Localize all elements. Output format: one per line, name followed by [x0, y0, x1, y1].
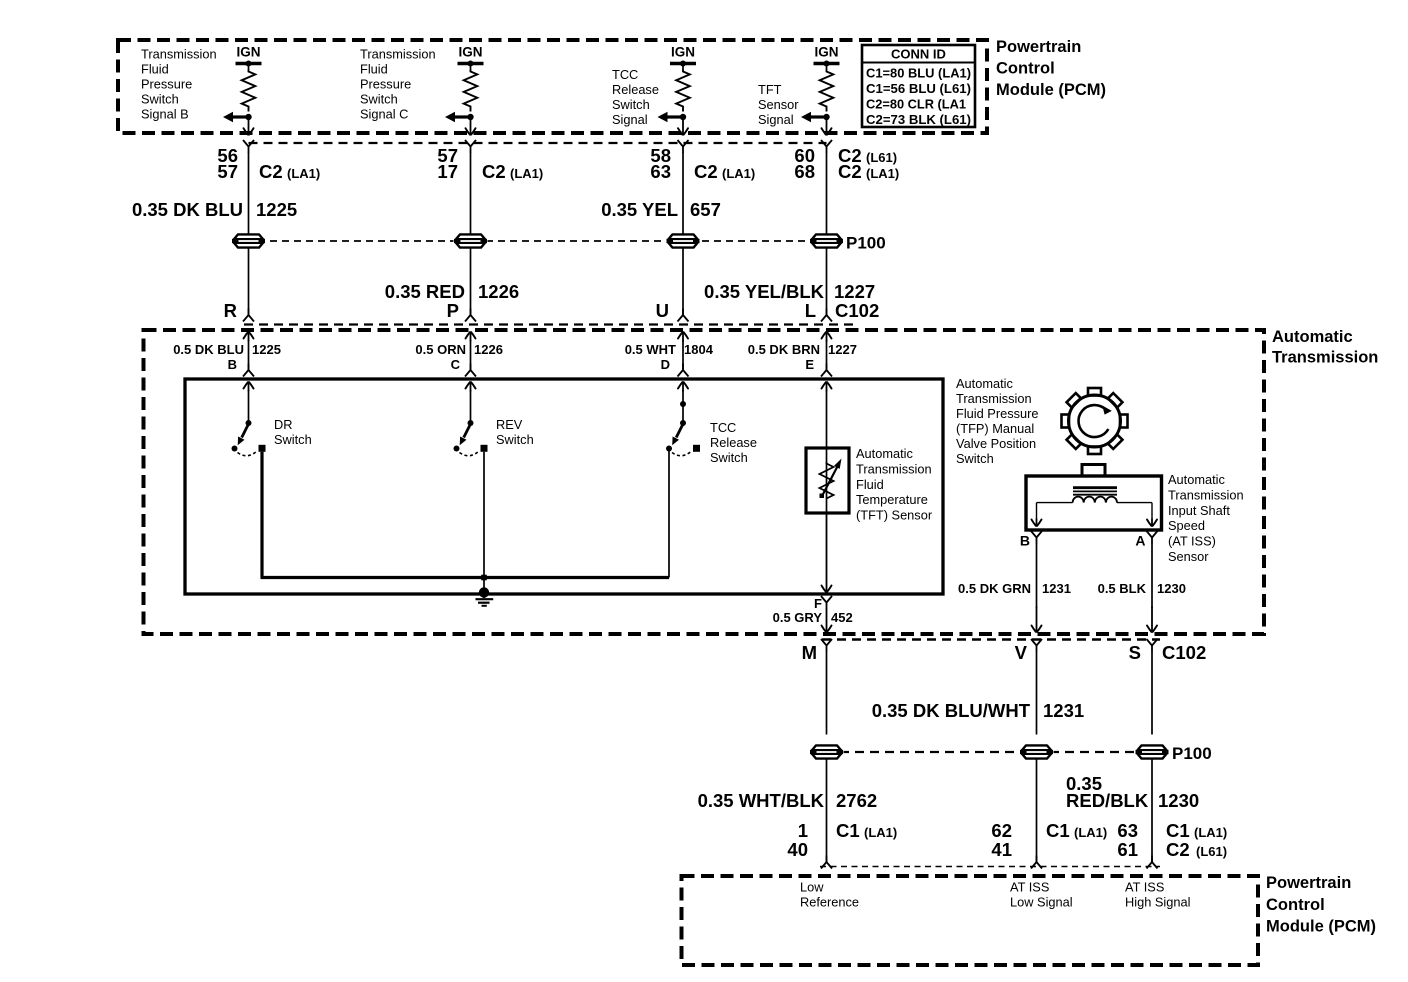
- grommet P100 col1: [232, 234, 266, 249]
- wire label 0.35 DK BLU 1225: [132, 199, 297, 220]
- svg-text:1231: 1231: [1043, 700, 1084, 721]
- wire resistor junction to PCM pin 2 with down arrow: [466, 117, 476, 135]
- svg-text:17: 17: [437, 161, 458, 182]
- wire resistor junction to PCM pin 4 with down arrow: [822, 117, 832, 135]
- PCM bottom connector dashed line: [820, 866, 1160, 868]
- label: AT ISS High Signal: [1125, 880, 1190, 910]
- IGN supply bar circuit 3: [670, 61, 696, 67]
- label: DR Switch: [274, 417, 312, 447]
- svg-text:Fluid: Fluid: [360, 62, 388, 77]
- wire C102 to switch box col1: [248, 340, 250, 370]
- svg-text:657: 657: [690, 199, 721, 220]
- svg-text:Automatic: Automatic: [1168, 472, 1226, 487]
- svg-text:C2: C2: [259, 161, 283, 182]
- svg-text:Input Shaft: Input Shaft: [1168, 503, 1230, 518]
- svg-text:TCC: TCC: [710, 420, 736, 435]
- svg-text:Release: Release: [612, 82, 659, 97]
- connector C102 female half bottom x1036: [1031, 639, 1037, 646]
- wire P100 to C102 col1: [248, 248, 250, 315]
- wire C102 to switch box col3: [682, 340, 684, 370]
- signal junction dot and left arrow circuit 3: [658, 112, 687, 122]
- wire P100 to C102 col4: [826, 248, 828, 315]
- svg-text:1804: 1804: [684, 342, 714, 357]
- connector C102 male arrow col3: [678, 332, 682, 338]
- svg-text:Powertrain: Powertrain: [996, 38, 1081, 56]
- label: AT ISS Low Signal: [1010, 880, 1073, 910]
- label: Automatic Transmission Input Shaft Speed (AT ISS) Sensor: [1168, 472, 1244, 564]
- svg-text:CONN ID: CONN ID: [891, 47, 946, 62]
- svg-text:(L61): (L61): [866, 150, 897, 165]
- wire F to C102 with down arrow: [822, 626, 826, 632]
- wire V P100 to PCM: [1036, 759, 1038, 862]
- svg-text:0.35 YEL: 0.35 YEL: [601, 199, 678, 220]
- svg-text:(LA1): (LA1): [722, 166, 755, 181]
- svg-text:R: R: [224, 300, 237, 321]
- Automatic Transmission box (dashed): [144, 330, 1265, 634]
- wire IGN bar to resistor 4: [826, 64, 828, 70]
- svg-text:C1=56 BLU (L61): C1=56 BLU (L61): [866, 81, 971, 96]
- svg-text:1225: 1225: [252, 342, 281, 357]
- wire resistor junction to PCM pin 3 with down arrow: [678, 117, 688, 135]
- connector C2 female half pin 1: [243, 140, 254, 153]
- connector C102 female half col4: [821, 315, 827, 322]
- wire label 0.35 YEL/BLK 1227: [704, 281, 875, 302]
- wire TCC pivot down: [668, 449, 670, 578]
- svg-text:P: P: [447, 300, 459, 321]
- svg-text:68: 68: [794, 161, 815, 182]
- svg-text:AT ISS: AT ISS: [1125, 880, 1164, 895]
- svg-text:0.35 DK BLU: 0.35 DK BLU: [132, 199, 243, 220]
- svg-text:B: B: [1020, 533, 1030, 549]
- connector C2 dashed line: [249, 142, 827, 144]
- svg-text:Release: Release: [710, 435, 757, 450]
- svg-text:(L61): (L61): [1196, 844, 1227, 859]
- svg-text:0.35 RED: 0.35 RED: [385, 281, 465, 302]
- TFP switch assembly box (solid): [185, 379, 943, 594]
- svg-text:REV: REV: [496, 417, 523, 432]
- svg-text:0.5 WHT: 0.5 WHT: [625, 342, 676, 357]
- svg-text:Switch: Switch: [956, 451, 994, 466]
- svg-text:Fluid: Fluid: [141, 62, 169, 77]
- svg-text:F: F: [814, 596, 822, 611]
- svg-text:IGN: IGN: [671, 45, 695, 60]
- svg-text:Automatic: Automatic: [1272, 328, 1353, 346]
- svg-text:Switch: Switch: [496, 432, 534, 447]
- svg-text:Valve Position: Valve Position: [956, 436, 1036, 451]
- PCM bottom entry female half x826: [821, 862, 827, 869]
- svg-text:1226: 1226: [478, 281, 519, 302]
- pin labels 57 17 C2 (LA1) col2: [437, 145, 543, 182]
- TCC release switch: [666, 382, 700, 456]
- pin labels 60 68 C2 (L61) C2 (LA1) col4: [794, 145, 899, 182]
- wire IGN bar to resistor 3: [682, 64, 684, 70]
- DR switch: [232, 382, 266, 456]
- svg-text:Fluid: Fluid: [856, 477, 884, 492]
- wire label 0.5 DK BRN 1227 and terminal E: [748, 342, 857, 372]
- svg-text:C1: C1: [1166, 820, 1190, 841]
- svg-text:Transmission: Transmission: [360, 47, 436, 62]
- switch box entry female half col4: [821, 370, 827, 377]
- svg-text:C1: C1: [836, 820, 860, 841]
- svg-text:1225: 1225: [256, 199, 297, 220]
- pull-up resistor circuit 3: [676, 70, 690, 112]
- svg-text:Fluid Pressure: Fluid Pressure: [956, 406, 1039, 421]
- svg-text:(LA1): (LA1): [1074, 825, 1107, 840]
- svg-text:Pressure: Pressure: [141, 77, 192, 92]
- pull-up resistor circuit 1: [242, 70, 256, 112]
- connector C2 female half pin 4: [821, 140, 832, 153]
- TFT sensor (thermistor in box): [806, 448, 849, 513]
- svg-text:C2: C2: [694, 161, 718, 182]
- wire label 0.5 GRY 452: [773, 610, 853, 625]
- svg-text:Control: Control: [1266, 896, 1325, 914]
- svg-text:63: 63: [650, 161, 671, 182]
- grommet P100 bottom x1036: [1020, 745, 1054, 760]
- svg-text:D: D: [661, 357, 670, 372]
- grommet P100 bottom x826: [810, 745, 844, 760]
- svg-text:41: 41: [991, 839, 1012, 860]
- label: Automatic Transmission (right): [1272, 328, 1378, 367]
- svg-text:TCC: TCC: [612, 67, 638, 82]
- svg-text:(LA1): (LA1): [866, 166, 899, 181]
- svg-text:Switch: Switch: [612, 97, 650, 112]
- svg-text:Sensor: Sensor: [1168, 549, 1209, 564]
- wire resistor junction to PCM pin 1 with down arrow: [244, 117, 254, 135]
- Powertrain Control Module (PCM) top box (dashed): [118, 40, 987, 133]
- svg-text:Low Signal: Low Signal: [1010, 895, 1073, 910]
- switch box entry female half col2: [465, 370, 471, 377]
- wire B down arrow at C102: [1032, 626, 1036, 632]
- svg-text:Transmission: Transmission: [856, 461, 932, 476]
- svg-text:C2: C2: [1166, 839, 1190, 860]
- AT ISS pin B half-connector and label: [1020, 531, 1042, 549]
- svg-text:C: C: [451, 357, 461, 372]
- svg-text:S: S: [1129, 642, 1141, 663]
- svg-text:0.5 ORN: 0.5 ORN: [415, 342, 466, 357]
- wire A to C102: [1151, 544, 1153, 608]
- wire C102 to switch box col2: [470, 340, 472, 370]
- wire P100 to C102 col2: [470, 248, 472, 315]
- svg-text:(TFP) Manual: (TFP) Manual: [956, 421, 1034, 436]
- wire label 0.35 RED 1226: [385, 281, 519, 302]
- svg-text:(LA1): (LA1): [864, 825, 897, 840]
- svg-text:C102: C102: [835, 300, 879, 321]
- label: Powertrain Control Module (PCM) top-right: [996, 38, 1106, 99]
- connector C102 dashed line (top): [244, 323, 856, 325]
- ground (case ground at box edge): [476, 587, 494, 606]
- svg-text:Low: Low: [800, 880, 824, 895]
- svg-text:0.35 DK BLU/WHT: 0.35 DK BLU/WHT: [872, 700, 1031, 721]
- svg-text:0.5 DK BRN: 0.5 DK BRN: [748, 342, 820, 357]
- PCM pin labels 1 40 C1 (LA1): [787, 820, 897, 860]
- svg-text:Sensor: Sensor: [758, 97, 799, 112]
- svg-text:C2=73 BLK (L61): C2=73 BLK (L61): [866, 112, 971, 127]
- svg-text:IGN: IGN: [814, 45, 838, 60]
- wire C2 to P100 col1: [248, 153, 250, 235]
- svg-text:Transmission: Transmission: [141, 47, 217, 62]
- Powertrain Control Module (PCM) bottom box (dashed): [682, 876, 1259, 965]
- wire label 0.5 BLK 1230: [1098, 581, 1186, 596]
- wire label 0.35 DK BLU/WHT 1231: [872, 700, 1084, 721]
- svg-text:E: E: [805, 357, 814, 372]
- AT ISS sensor (inductive pickup in box): [1026, 476, 1162, 530]
- grommet P100 col2: [454, 234, 488, 249]
- svg-text:Signal: Signal: [612, 112, 648, 127]
- connector C102 female half col1: [243, 315, 249, 322]
- connector C102 female half bottom x1152: [1147, 639, 1153, 646]
- wire label 0.5 WHT 1804 and terminal D: [625, 342, 714, 372]
- svg-text:(LA1): (LA1): [287, 166, 320, 181]
- REV switch: [454, 382, 488, 456]
- svg-text:0.5 DK BLU: 0.5 DK BLU: [173, 342, 244, 357]
- svg-text:40: 40: [787, 839, 808, 860]
- IGN supply bar circuit 1: [236, 61, 262, 67]
- svg-text:P100: P100: [846, 234, 886, 253]
- svg-text:Switch: Switch: [141, 92, 179, 107]
- wire label 0.5 ORN 1226 and terminal C: [415, 342, 503, 372]
- P100 pass-through dashed link (bottom): [840, 751, 1140, 753]
- switch box entry female half col1: [243, 370, 249, 377]
- AT ISS pin A half-connector and label: [1135, 531, 1157, 549]
- wire label 0.35 RED/BLK 1230: [1066, 773, 1199, 811]
- svg-text:Reference: Reference: [800, 895, 859, 910]
- svg-text:1231: 1231: [1042, 581, 1071, 596]
- svg-text:RED/BLK: RED/BLK: [1066, 790, 1149, 811]
- wire DR switch contact down (thick): [260, 452, 263, 578]
- svg-text:IGN: IGN: [458, 45, 482, 60]
- wire S C102 to P100: [1151, 652, 1153, 735]
- label: Automatic Transmission Fluid Pressure (TFP) Manual Valve Position Switch: [956, 376, 1039, 466]
- svg-text:1230: 1230: [1158, 790, 1199, 811]
- svg-text:Automatic: Automatic: [956, 376, 1014, 391]
- wire M P100 to PCM: [826, 759, 828, 862]
- pin labels 56 57 C2 (LA1) col1: [217, 145, 320, 182]
- wire M C102 to P100: [826, 652, 828, 735]
- connector C2 female half pin 3: [678, 140, 689, 153]
- svg-text:TFT: TFT: [758, 82, 782, 97]
- svg-text:C1: C1: [1046, 820, 1070, 841]
- C102 terminal letters R P U L: [224, 300, 816, 321]
- svg-text:63: 63: [1117, 820, 1138, 841]
- svg-text:(TFT) Sensor: (TFT) Sensor: [856, 508, 933, 523]
- wire S P100 to PCM: [1151, 759, 1153, 862]
- svg-text:Switch: Switch: [360, 92, 398, 107]
- IGN supply bar circuit 4: [814, 61, 840, 67]
- wire label 0.5 DK GRN 1231: [958, 581, 1071, 596]
- svg-text:AT ISS: AT ISS: [1010, 880, 1049, 895]
- IGN supply bar circuit 2: [458, 61, 484, 67]
- svg-text:P100: P100: [1172, 744, 1212, 763]
- signal junction dot and left arrow circuit 4: [801, 112, 830, 122]
- CONN ID table box: [862, 45, 975, 127]
- svg-text:Signal: Signal: [758, 112, 794, 127]
- svg-text:(AT ISS): (AT ISS): [1168, 534, 1216, 549]
- svg-text:C2: C2: [482, 161, 506, 182]
- connector C102 female half col2: [465, 315, 471, 322]
- svg-text:Transmission: Transmission: [956, 391, 1032, 406]
- wire label 0.35 WHT/BLK 2762: [698, 790, 878, 811]
- svg-text:Speed: Speed: [1168, 518, 1205, 533]
- label: TFT Sensor Signal: [758, 82, 799, 127]
- wire C2 to P100 col3: [682, 153, 684, 235]
- svg-text:(LA1): (LA1): [1194, 825, 1227, 840]
- svg-text:C2=80 CLR (LA1: C2=80 CLR (LA1: [866, 97, 966, 112]
- P100 pass-through dashed link (top): [258, 240, 818, 242]
- grommet P100 col3: [666, 234, 700, 249]
- svg-text:1230: 1230: [1157, 581, 1186, 596]
- signal junction dot and left arrow circuit 2: [445, 112, 474, 122]
- connector C2 female half pin 2: [465, 140, 476, 153]
- wire V C102 to P100: [1036, 652, 1038, 735]
- signal junction dot and left arrow circuit 1: [223, 112, 252, 122]
- wire B to C102: [1036, 544, 1038, 608]
- TFP manual valve rotary symbol (gear): [1069, 395, 1121, 447]
- svg-text:L: L: [805, 300, 816, 321]
- IGN label circuit 3: [671, 45, 695, 60]
- svg-text:0.5 DK GRN: 0.5 DK GRN: [958, 581, 1031, 596]
- pin labels 58 63 C2 (LA1) col3: [650, 145, 755, 182]
- label: Automatic Transmission Fluid Temperature (TFT) Sensor: [856, 446, 933, 523]
- svg-text:C1=80 BLU (LA1): C1=80 BLU (LA1): [866, 66, 971, 81]
- svg-text:1227: 1227: [834, 281, 875, 302]
- grommet P100 col4: [810, 234, 844, 249]
- wire A down arrow at C102: [1147, 626, 1151, 632]
- connector C102 dashed line (bottom): [822, 638, 1160, 641]
- connector F female half below box: [821, 596, 832, 609]
- label: TCC Release Switch: [710, 420, 757, 465]
- label: TCC Release Switch Signal: [612, 67, 659, 127]
- pull-up resistor circuit 4: [820, 70, 834, 112]
- svg-text:M: M: [802, 642, 817, 663]
- connector C102 male arrow col2: [466, 332, 470, 338]
- svg-text:V: V: [1015, 642, 1028, 663]
- svg-text:452: 452: [831, 610, 853, 625]
- connector C102 male arrow col4: [822, 332, 826, 338]
- svg-text:Pressure: Pressure: [360, 77, 411, 92]
- svg-text:C102: C102: [1162, 642, 1206, 663]
- svg-text:C2: C2: [838, 161, 862, 182]
- svg-text:IGN: IGN: [236, 45, 260, 60]
- switch box entry female half col3: [678, 370, 684, 377]
- PCM pin labels 62 41 C1 (LA1): [991, 820, 1107, 860]
- svg-text:B: B: [228, 357, 237, 372]
- connector C102 female half bottom x826: [821, 639, 827, 646]
- svg-text:Temperature: Temperature: [856, 492, 928, 507]
- svg-text:62: 62: [991, 820, 1012, 841]
- svg-text:61: 61: [1117, 839, 1138, 860]
- PCM pin labels 63 61 C1 (LA1) C2 (L61): [1117, 820, 1227, 860]
- wire TFT sensor to box bottom with down arrow: [822, 586, 826, 592]
- svg-text:Module (PCM): Module (PCM): [1266, 918, 1376, 936]
- connector C102 female half col3: [678, 315, 684, 322]
- wire label 0.35 YEL 657: [601, 199, 721, 220]
- svg-text:Transmission: Transmission: [1168, 487, 1244, 502]
- svg-text:Signal C: Signal C: [360, 107, 408, 122]
- wire P100 to C102 col3: [682, 248, 684, 315]
- svg-text:57: 57: [217, 161, 238, 182]
- label: Powertrain Control Module (PCM) bottom-right: [1266, 874, 1376, 936]
- label: Transmission Fluid Pressure Switch Signal B: [141, 47, 217, 122]
- svg-text:Module (PCM): Module (PCM): [996, 81, 1106, 99]
- svg-text:Switch: Switch: [274, 432, 312, 447]
- wire IGN bar to resistor 2: [470, 64, 472, 70]
- wire IGN bar to resistor 1: [248, 64, 250, 70]
- svg-text:A: A: [1135, 533, 1145, 549]
- svg-text:0.5 GRY: 0.5 GRY: [773, 610, 823, 625]
- svg-text:Signal B: Signal B: [141, 107, 189, 122]
- IGN label circuit 2: [458, 45, 482, 60]
- wire C102 to switch box col4: [826, 340, 828, 370]
- wire label 0.5 DK BLU 1225 and terminal B: [173, 342, 281, 372]
- label: REV Switch: [496, 417, 534, 447]
- svg-text:0.35 WHT/BLK: 0.35 WHT/BLK: [698, 790, 825, 811]
- label: Low Reference: [800, 880, 859, 910]
- svg-text:Transmission: Transmission: [1272, 349, 1378, 367]
- PCM bottom entry female half x1036: [1031, 862, 1037, 869]
- wire C2 to P100 col2: [470, 153, 472, 235]
- svg-text:1: 1: [798, 820, 808, 841]
- junction REV to bus: [481, 575, 487, 581]
- wire REV switch contact down: [483, 452, 485, 594]
- PCM bottom entry female half x1152: [1147, 862, 1153, 869]
- wire C2 to P100 col4: [826, 153, 828, 235]
- svg-text:DR: DR: [274, 417, 292, 432]
- svg-text:U: U: [656, 300, 669, 321]
- svg-text:High Signal: High Signal: [1125, 895, 1190, 910]
- svg-text:Automatic: Automatic: [856, 446, 914, 461]
- svg-text:1227: 1227: [828, 342, 857, 357]
- pull-up resistor circuit 2: [464, 70, 478, 112]
- svg-text:0.35 YEL/BLK: 0.35 YEL/BLK: [704, 281, 825, 302]
- svg-text:0.5 BLK: 0.5 BLK: [1098, 581, 1147, 596]
- TFT sensor wire from top with up arrow: [822, 382, 832, 448]
- svg-text:Switch: Switch: [710, 450, 748, 465]
- svg-text:Control: Control: [996, 60, 1055, 78]
- svg-text:2762: 2762: [836, 790, 877, 811]
- C102 terminal letters M V S: [802, 642, 1141, 663]
- IGN label circuit 4: [814, 45, 838, 60]
- wire internal bus DR to TCC (thick): [261, 576, 670, 579]
- IGN label circuit 1: [236, 45, 260, 60]
- svg-text:1226: 1226: [474, 342, 503, 357]
- svg-text:Powertrain: Powertrain: [1266, 874, 1351, 892]
- svg-text:(LA1): (LA1): [510, 166, 543, 181]
- connector C102 male arrow col1: [244, 332, 248, 338]
- label: Transmission Fluid Pressure Switch Signal C: [360, 47, 436, 122]
- grommet P100 bottom x1152: [1135, 745, 1169, 760]
